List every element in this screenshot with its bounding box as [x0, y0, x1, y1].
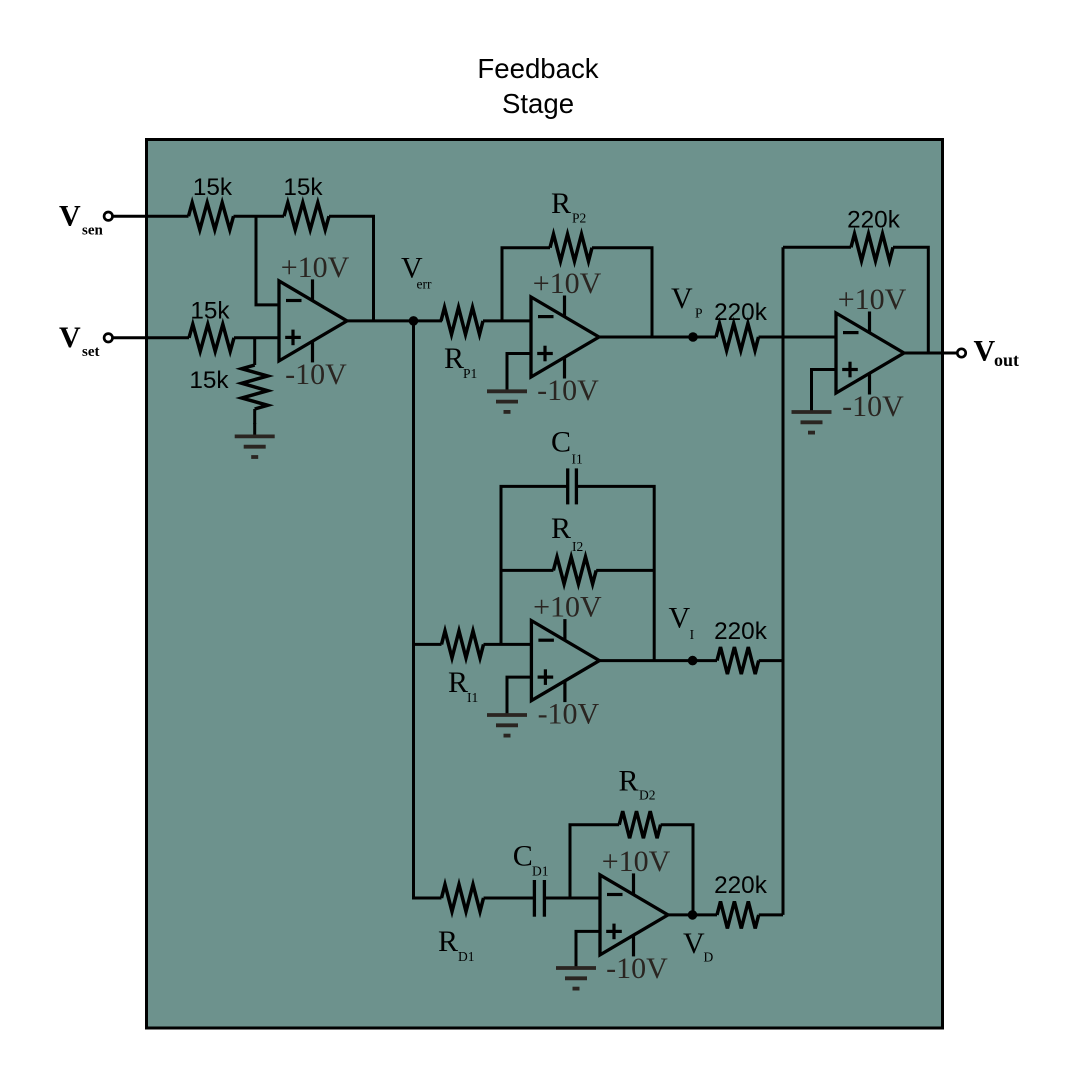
wire Vsen resistor to feedback resistor	[234, 215, 285, 218]
wire A2 feedback left vertical	[502, 248, 550, 321]
wire summing bus vertical	[782, 247, 785, 915]
resistor 15k (A1 feedback)	[284, 203, 329, 230]
svg-text:P: P	[695, 306, 703, 321]
wire P 220k to summing bus	[759, 336, 837, 339]
terminal Vout	[957, 349, 965, 357]
svg-text:R: R	[444, 342, 464, 375]
op-amp A1 non-inverting input symbol	[285, 336, 301, 339]
wire A2 feedback right vertical	[592, 248, 652, 337]
feedback stage bounding box	[147, 140, 943, 1029]
op-amp A4 inverting input symbol	[607, 893, 623, 896]
resistor 220k (A5 feedback)	[851, 234, 893, 261]
ground G2	[506, 377, 509, 390]
op-amp A4 positive supply pin	[632, 873, 635, 895]
svg-text:15k: 15k	[190, 297, 230, 324]
ground G4	[575, 954, 578, 967]
op-amp A5 negative supply pin	[868, 373, 871, 395]
svg-text:220k: 220k	[714, 872, 768, 899]
svg-text:+10V: +10V	[281, 251, 350, 284]
wire RI2 branch right	[596, 569, 654, 572]
svg-text:D1: D1	[532, 864, 549, 879]
node Verr junction dot	[409, 316, 419, 326]
resistor RP2	[550, 234, 592, 261]
wire A3 ground stub	[507, 677, 531, 702]
svg-text:-10V: -10V	[537, 374, 599, 407]
svg-text:P2: P2	[572, 211, 586, 226]
svg-text:sen: sen	[82, 223, 103, 239]
resistor 15k (Vset input)	[189, 324, 234, 351]
terminal Vset	[104, 334, 112, 342]
ground G5	[810, 398, 813, 411]
wire A1 output to node Verr	[347, 319, 442, 322]
wire D 220k to summing bus	[759, 913, 783, 916]
op-amp A2 inverting input symbol	[538, 315, 554, 318]
op-amp A2 triangle	[531, 297, 599, 377]
svg-text:220k: 220k	[714, 299, 768, 326]
wire A5 output to Vout	[904, 352, 957, 355]
svg-text:V: V	[683, 927, 705, 960]
wire A1 feedback to output	[329, 216, 374, 321]
op-amp A5 triangle	[836, 313, 904, 393]
ground G1	[253, 423, 256, 435]
svg-text:P1: P1	[463, 366, 477, 381]
wire A4 feedback right vertical	[661, 825, 693, 915]
wire A3 output to node VI	[599, 659, 717, 662]
svg-text:15k: 15k	[283, 174, 323, 201]
wire A4 feedback left vertical	[570, 825, 619, 898]
wire RP1 to A2 inverting input	[483, 319, 531, 322]
wire junction down to inverting input	[256, 216, 279, 305]
wire A4 output to node VD	[668, 913, 717, 916]
wire A3 feedback left vertical	[501, 486, 568, 644]
svg-text:15k: 15k	[189, 367, 229, 394]
svg-text:D1: D1	[458, 949, 475, 964]
resistor 220k (P sum)	[716, 324, 759, 351]
svg-text:+10V: +10V	[838, 283, 907, 316]
op-amp A3 inverting input symbol	[538, 639, 554, 642]
svg-text:set: set	[82, 344, 100, 360]
capacitor CI1	[566, 468, 569, 504]
node VD junction dot	[688, 910, 698, 920]
svg-text:R: R	[438, 925, 458, 958]
svg-text:V: V	[669, 601, 691, 634]
ground G3	[506, 701, 509, 714]
wire Verr bus down to D stage	[414, 321, 442, 898]
op-amp A2 positive supply pin	[563, 296, 566, 318]
resistor 15k (Vsen input)	[189, 203, 234, 230]
op-amp A1 negative supply pin	[311, 341, 314, 363]
resistor RI1	[442, 631, 484, 658]
svg-text:V: V	[974, 335, 996, 368]
svg-text:Stage: Stage	[502, 88, 574, 119]
op-amp A2 negative supply pin	[563, 357, 566, 379]
svg-text:I2: I2	[572, 539, 583, 554]
capacitor CD1	[533, 880, 536, 917]
op-amp A5 inverting input symbol	[843, 331, 859, 334]
resistor RD1	[442, 885, 484, 912]
wire Vset resistor to non-inverting input	[234, 336, 279, 339]
svg-text:R: R	[551, 187, 571, 220]
svg-text:C: C	[551, 425, 571, 458]
svg-text:D: D	[704, 950, 714, 965]
resistor RP1	[441, 307, 483, 334]
svg-text:-10V: -10V	[285, 358, 347, 391]
svg-text:+10V: +10V	[533, 591, 602, 624]
terminal Vsen	[104, 212, 112, 220]
svg-text:V: V	[59, 321, 81, 354]
op-amp A4 triangle	[600, 875, 668, 955]
wire I 220k to summing bus	[759, 659, 783, 662]
op-amp A4 negative supply pin	[632, 935, 635, 957]
wire Vset input	[113, 336, 189, 339]
svg-text:out: out	[994, 350, 1019, 370]
wire CD1 to A4 inverting input	[544, 897, 600, 900]
wire Vsen input	[113, 215, 189, 218]
op-amp A3 positive supply pin	[563, 619, 566, 641]
wire junction down to ground resistor	[253, 338, 256, 365]
resistor RI2	[553, 557, 596, 584]
op-amp A3 negative supply pin	[563, 681, 566, 703]
wire RD1 to CD1	[484, 897, 535, 900]
wire A5 feedback top left	[783, 246, 851, 249]
svg-text:V: V	[59, 199, 81, 232]
svg-text:D2: D2	[639, 788, 656, 803]
op-amp A1 positive supply pin	[311, 279, 314, 301]
svg-text:C: C	[513, 840, 533, 873]
op-amp A1 triangle	[279, 281, 347, 361]
wire RI2 branch left	[501, 569, 553, 572]
op-amp A3 non-inverting input symbol	[538, 675, 554, 678]
wire CI1 to feedback right vertical	[576, 486, 654, 660]
resistor 15k (to ground)	[242, 365, 268, 409]
svg-text:+10V: +10V	[533, 267, 602, 300]
op-amp A1 inverting input symbol	[286, 299, 302, 302]
resistor 220k (D sum)	[717, 901, 759, 928]
op-amp A4 non-inverting input symbol	[606, 930, 622, 933]
wire RI1 to A3 inverting input	[484, 643, 532, 646]
wire ground resistor to ground	[253, 409, 256, 424]
wire A2 ground stub	[507, 354, 531, 379]
resistor RD2	[619, 811, 660, 838]
svg-text:I1: I1	[572, 452, 583, 467]
svg-text:err: err	[417, 277, 432, 292]
svg-text:+10V: +10V	[602, 845, 671, 878]
svg-text:15k: 15k	[193, 174, 233, 201]
svg-text:I: I	[690, 627, 695, 642]
op-amp A5 positive supply pin	[868, 312, 871, 334]
svg-text:I1: I1	[467, 690, 478, 705]
svg-text:R: R	[551, 512, 571, 545]
svg-text:220k: 220k	[714, 618, 768, 645]
wire A2 output to node VP	[599, 336, 716, 339]
svg-text:R: R	[619, 764, 639, 797]
resistor 220k (I sum)	[717, 647, 759, 674]
svg-text:Feedback: Feedback	[477, 53, 598, 84]
op-amp A2 non-inverting input symbol	[537, 352, 553, 355]
wire Verr bus to RI1	[414, 643, 442, 646]
op-amp A3 triangle	[531, 621, 599, 701]
node VI junction dot	[688, 656, 698, 666]
node VP junction dot	[688, 332, 698, 342]
svg-text:-10V: -10V	[606, 952, 668, 985]
wire A4 ground stub	[576, 931, 600, 955]
op-amp A5 non-inverting input symbol	[842, 368, 858, 371]
wire A5 feedback right vertical	[893, 247, 928, 353]
svg-text:R: R	[448, 666, 468, 699]
svg-text:-10V: -10V	[538, 698, 600, 731]
svg-text:V: V	[671, 282, 693, 315]
wire A5 ground stub	[812, 370, 837, 400]
svg-text:-10V: -10V	[842, 390, 904, 423]
